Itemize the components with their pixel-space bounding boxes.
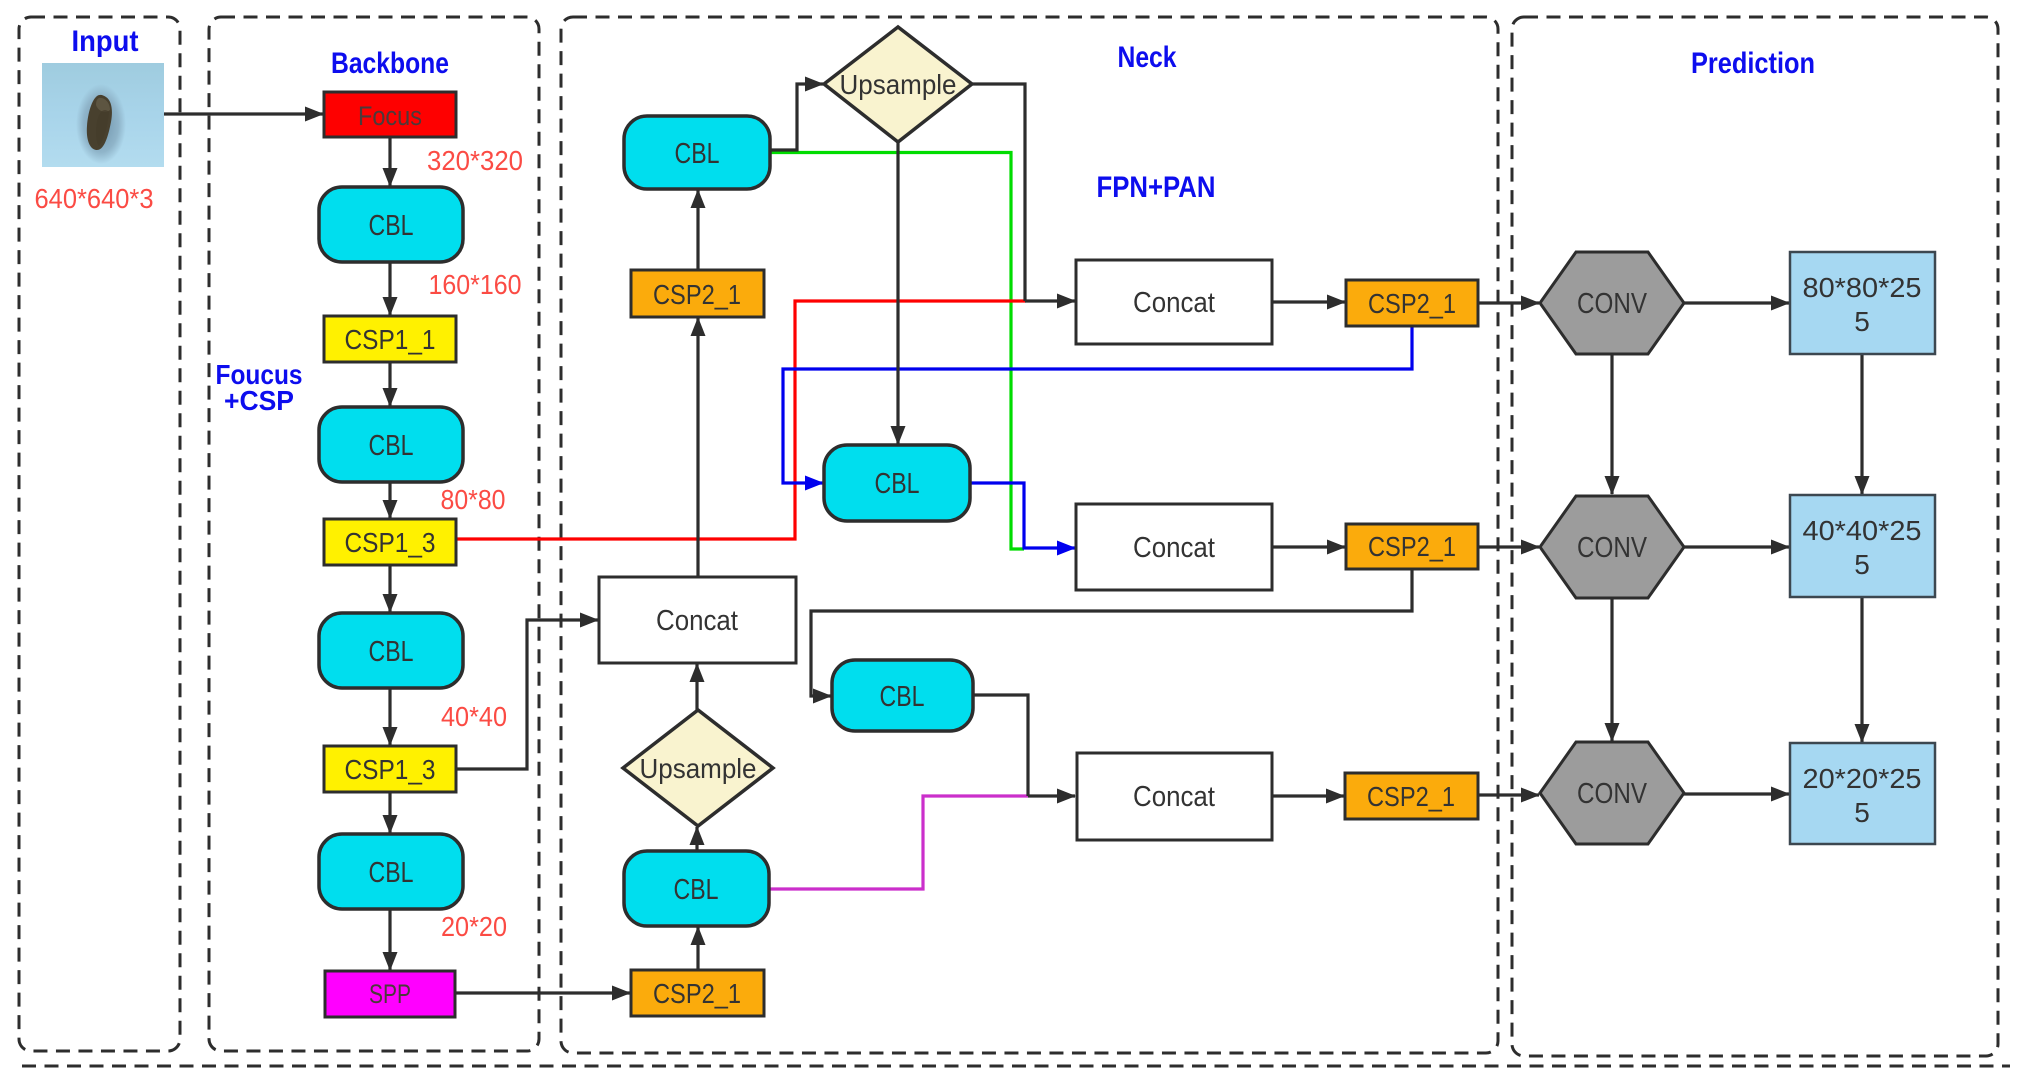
svg-text:CONV: CONV [1577,532,1648,564]
svg-text:Focus: Focus [358,101,422,131]
svg-text:640*640*3: 640*640*3 [35,183,154,214]
svg-text:CSP2_1: CSP2_1 [653,279,741,310]
svg-text:CONV: CONV [1577,288,1648,320]
wire CSP1_3b to CBL4 [388,792,391,833]
dashed frame Neck [561,17,1498,1053]
svg-text:80*80*25: 80*80*25 [1803,272,1922,303]
block CBL neck-bottom [624,851,769,926]
svg-text:Prediction: Prediction [1691,47,1815,80]
svg-text:5: 5 [1854,797,1870,828]
wire Concat2 to CSP2_1-row2 [1272,545,1345,548]
wire red CSP1_3a to Concat1 [456,301,1026,539]
svg-text:CSP2_1: CSP2_1 [653,978,741,1009]
wire blue CSP2_1-row1 to CBL-mid [783,326,1412,483]
svg-text:CSP2_1: CSP2_1 [1368,531,1456,562]
svg-text:40*40*25: 40*40*25 [1803,515,1922,546]
input photo [42,63,164,167]
svg-text:CBL: CBL [369,210,414,242]
svg-text:20*20*25: 20*20*25 [1803,763,1922,794]
title Foucus+CSP [216,359,303,416]
svg-text:CSP2_1: CSP2_1 [1368,288,1456,319]
wire CBL-n3 to Concat3 [973,695,1028,796]
wire out1 to out2 [1860,354,1863,494]
svg-text:Concat: Concat [1133,781,1215,813]
arrow junction into Concat1 [1025,299,1075,302]
block CBL neck-right [832,660,973,731]
svg-text:CBL: CBL [369,857,414,889]
svg-text:160*160: 160*160 [429,269,522,300]
wire CBL2 to CSP1_3a [388,482,391,518]
wire Concat1 to CSP2_1-row1 [1272,300,1345,303]
wire CONV2 to CONV3 [1610,596,1613,741]
block Upsample1 diamond [824,27,972,142]
svg-text:SPP: SPP [369,979,411,1009]
wire CSP1_3b to Concat-mid [456,620,598,769]
svg-text:320*320: 320*320 [427,145,523,176]
wire blue CBL-mid to Concat2 [970,483,1075,548]
block Concat mid [599,577,796,663]
svg-text:5: 5 [1854,306,1870,337]
wire CONV1 to CONV2 [1610,354,1613,494]
svg-text:Concat: Concat [1133,532,1215,564]
wire CBL-n4 to Upsample2 [695,827,698,851]
svg-text:20*20: 20*20 [441,911,507,942]
svg-text:Upsample: Upsample [840,69,957,100]
wire CSP2_1-row3 to CONV3 [1478,793,1539,796]
svg-text:CBL: CBL [675,138,720,170]
svg-text:CBL: CBL [369,430,414,462]
block output 40*40*255 [1790,495,1935,597]
wire CBL-n1 to Upsample1 [770,84,823,150]
wire Concat-mid to CSP2_1-L [696,318,699,577]
block output 20*20*255 [1790,743,1935,844]
dashed line bottom crop [22,1065,2010,1068]
wire CSP2_1-L to CBL-n1 [696,190,699,270]
block CBL2 [319,407,463,482]
block CSP1_1 [324,316,456,362]
wire CSP1_3a to CBL3 [388,565,391,612]
svg-text:5: 5 [1854,549,1870,580]
dashed frame Prediction [1512,17,1998,1056]
block SPP [325,971,455,1017]
block CONV1 hexagon [1540,252,1684,354]
wire CSP2_1-row2 to CBL-n3 [811,569,1412,696]
svg-text:80*80: 80*80 [441,484,506,515]
svg-text:40*40: 40*40 [441,701,507,732]
wire Concat3 to CSP2_1-row3 [1272,794,1344,797]
BLACK WIRES [164,84,1862,993]
block Concat row1 [1076,260,1272,344]
dashed frame Input [19,17,180,1051]
svg-text:Input: Input [72,25,139,58]
wire CSP2_1-row1 to CONV1 [1478,301,1539,304]
block CONV2 hexagon [1540,496,1684,598]
block Focus [324,92,456,137]
wire green CBL-top to Concat2 junction [770,153,1024,550]
svg-text:CSP2_1: CSP2_1 [1367,781,1455,812]
svg-text:+CSP: +CSP [224,385,294,416]
block Concat row2 [1076,504,1272,590]
block CBL neck-mid [824,445,970,521]
svg-text:CSP1_3: CSP1_3 [345,754,436,785]
svg-text:CBL: CBL [369,636,414,668]
svg-text:FPN+PAN: FPN+PAN [1097,171,1216,204]
svg-text:CSP1_3: CSP1_3 [345,527,436,558]
wire CBL4 to SPP [388,909,391,970]
svg-text:Concat: Concat [1133,287,1215,319]
svg-text:Concat: Concat [656,605,738,637]
wire magenta CBL-n4 to Concat3 junction [769,796,1028,889]
block CBL4 [319,834,463,909]
block CSP2_1 neck-bottom [631,970,764,1016]
block CSP1_3b [324,746,456,792]
block CBL1 [319,187,463,262]
block CSP2_1 neck-left [631,270,764,317]
svg-text:CBL: CBL [674,874,719,906]
block CBL neck-top [624,116,770,189]
svg-text:Backbone: Backbone [331,47,449,80]
svg-text:CBL: CBL [880,681,925,713]
wire CSP1_1 to CBL2 [388,362,391,406]
wire image to Focus [164,112,323,115]
svg-text:CSP1_1: CSP1_1 [345,324,436,355]
svg-text:CONV: CONV [1577,778,1648,810]
block CONV3 hexagon [1540,742,1684,844]
wire Upsample1 right to Concat1 [972,84,1025,301]
block CSP2_1 row3 [1345,773,1478,819]
wire CONV2 to out2 [1684,545,1789,548]
block Concat row3 [1077,753,1272,840]
svg-text:Neck: Neck [1118,41,1177,74]
wire CBL3 to CSP1_3b [388,688,391,745]
wire Upsample1 down to CBL-mid [896,142,899,444]
wire CSP2_1-B to CBL-n4 [696,927,699,970]
svg-text:CBL: CBL [875,468,920,500]
wire SPP to CSP2_1-B [455,991,630,994]
wire out2 to out3 [1860,597,1863,742]
block output 80*80*255 [1790,252,1935,354]
block CSP1_3a [324,519,456,565]
wire Upsample2 to Concat-mid [695,664,698,711]
dashed frame Backbone [209,17,539,1051]
block Upsample2 diamond [623,710,773,826]
wire CSP2_1-row2 to CONV2 [1478,545,1539,548]
arrow junction into Concat3 [1028,794,1075,797]
wire CBL1 to CSP1_1 [388,262,391,315]
wire Focus to CBL1 [388,137,391,186]
block CSP2_1 row1 [1346,280,1478,326]
block CSP2_1 row2 [1346,524,1478,569]
wire CONV1 to out1 [1684,301,1789,304]
wire CONV3 to out3 [1684,792,1789,795]
block CBL3 [319,613,463,688]
svg-text:Upsample: Upsample [640,753,757,784]
